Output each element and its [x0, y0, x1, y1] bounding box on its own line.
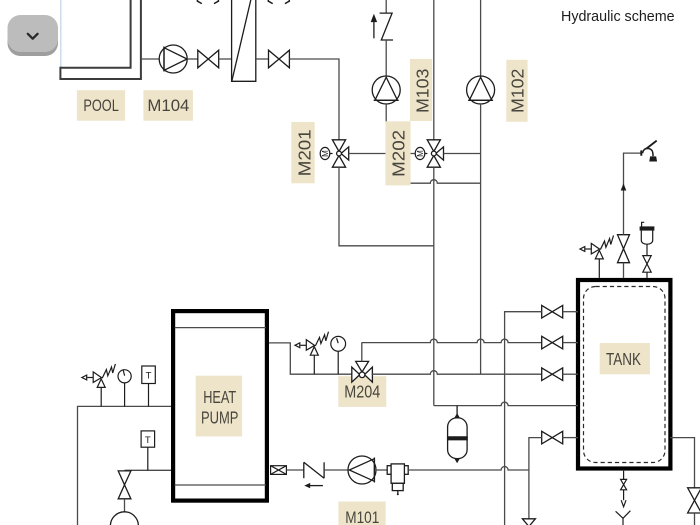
svg-text:T: T	[146, 371, 152, 382]
wire M202 to M102 pipe	[444, 153, 481, 155]
wire valve4 to tank	[563, 437, 578, 439]
flow arrow left	[304, 483, 323, 488]
valve above tank	[618, 235, 630, 263]
wire pump M101 to filter	[376, 469, 387, 471]
wire valve to tank top	[623, 263, 625, 278]
svg-text:M101: M101	[345, 508, 379, 525]
valve (right of heat exchanger)	[269, 50, 290, 68]
wire valve to bottom pump	[124, 499, 126, 512]
wire pool to pump M104	[141, 58, 159, 60]
wire pump M102 down	[480, 104, 482, 374]
air vent	[640, 222, 654, 255]
expansion vessel	[448, 406, 468, 462]
3-way valve M201	[332, 140, 348, 167]
heat pump inner line bottom	[175, 484, 266, 486]
svg-text:TANK: TANK	[606, 350, 641, 369]
wire valve3 to tank	[563, 373, 578, 375]
wire break symbol to pump M103	[385, 40, 387, 76]
wire below right drain valve	[694, 513, 696, 525]
label M202	[385, 121, 410, 185]
label M102	[506, 60, 527, 122]
heat pump body	[173, 311, 267, 501]
svg-text:Hydraulic scheme: Hydraulic scheme	[561, 9, 675, 25]
gauge (M204 line)	[331, 336, 346, 374]
heat pump inner line top	[175, 327, 266, 329]
label HEAT PUMP	[196, 376, 242, 437]
wire valve up to faucet with arrow	[624, 153, 642, 235]
valve (bottom left)	[118, 471, 131, 499]
svg-text:M102: M102	[507, 69, 527, 114]
pool	[60, 0, 140, 79]
svg-text:M104: M104	[147, 96, 189, 115]
faucet	[641, 141, 656, 162]
wire heat pump right top to M204 left	[269, 343, 352, 374]
wire valve to heat exchanger	[219, 58, 232, 60]
valve tip pair (top edge, left)	[197, 0, 218, 4]
wire valve1 to tank	[563, 311, 578, 313]
wire pump M103 down to cross line	[385, 104, 387, 183]
wire valve to M201 riser	[289, 59, 339, 140]
heat exchanger	[232, 0, 256, 81]
label M101	[338, 502, 385, 525]
tank inner dashed	[584, 287, 666, 463]
pump (bottom left, cut)	[110, 512, 138, 525]
gauge (heat pump left)	[118, 370, 131, 407]
label M204	[338, 376, 386, 407]
pump M103	[372, 76, 400, 104]
wire M103-M102 link with hop	[386, 180, 480, 184]
relief valve (heat pump left)	[82, 364, 116, 407]
wire M201 bottom	[339, 167, 434, 246]
3-way valve M204	[352, 361, 373, 382]
svg-text:M201: M201	[294, 129, 314, 176]
wire valve1 left + riser x=504.6	[505, 312, 542, 525]
label TANK	[600, 343, 650, 374]
tank valve 2	[542, 336, 563, 349]
tank bottom drain	[616, 471, 631, 525]
wire riser above break symbol	[385, 0, 387, 13]
svg-text:M: M	[321, 150, 330, 157]
svg-text:PUMP: PUMP	[201, 408, 239, 428]
svg-text:M: M	[416, 150, 425, 157]
check valve	[304, 462, 324, 478]
drain triangle bottom of x=528.9	[522, 519, 535, 525]
svg-text:M204: M204	[344, 382, 380, 402]
T sensor (bottom)	[141, 431, 155, 470]
wire filter to x=528.9 with hop	[408, 467, 529, 470]
wire pump to valve	[187, 58, 198, 60]
pump M102	[467, 76, 495, 104]
filter / dirt separator	[387, 464, 408, 495]
valve tip pair (top edge, right)	[268, 0, 289, 4]
flow arrow up	[621, 183, 627, 190]
pump M104	[159, 45, 187, 73]
wire check valve to pump M101	[324, 469, 348, 471]
tank valve 1	[542, 305, 563, 318]
svg-text:POOL: POOL	[83, 96, 119, 115]
M202 riser from top	[433, 0, 435, 140]
break/vent symbol	[372, 13, 393, 40]
motor M of M202	[415, 147, 427, 159]
relief valve (M204 line)	[295, 332, 329, 375]
wire M204 top to tank valve2 (with hops)	[362, 339, 542, 343]
wire x=433.8 to tank (y=405.6) with hop	[434, 402, 578, 406]
T sensor (heat pump left)	[142, 366, 156, 406]
M202 riser lower part	[433, 167, 435, 405]
pump M101	[348, 456, 376, 484]
pool water edge (light blue)	[60, 0, 62, 68]
wire riser above pump M102	[480, 0, 482, 76]
wire X box to check valve	[286, 469, 303, 471]
valve (pool line, left of heat exchanger)	[198, 50, 219, 68]
wire tank right to drain valve	[670, 438, 694, 488]
flow switch (X box)	[271, 466, 287, 475]
wire M204 right to tank valve3 (with hop)	[372, 371, 542, 375]
valve (tank right drain)	[688, 488, 700, 513]
tank body	[578, 280, 670, 469]
wire valve2 to tank	[563, 342, 578, 344]
collapse button	[8, 15, 59, 56]
wire M204 top riser	[361, 343, 363, 362]
tank valve 4	[542, 431, 563, 444]
svg-text:M103: M103	[412, 68, 432, 113]
motor M of M201	[320, 147, 332, 159]
relief valve (tank top)	[580, 235, 614, 278]
svg-text:T: T	[145, 435, 151, 446]
wire heat pump bottom left	[125, 469, 172, 471]
label M201	[291, 122, 314, 183]
svg-text:HEAT: HEAT	[203, 387, 236, 407]
label POOL	[77, 90, 125, 121]
wire M201 to M202 motor	[349, 153, 415, 155]
wire valve4 left + riser x=528.9 down	[529, 438, 542, 519]
3-way valve M202	[427, 140, 443, 167]
tank valve 3	[542, 368, 563, 381]
svg-text:M202: M202	[389, 130, 409, 177]
small valve below air vent	[643, 256, 651, 278]
label M104	[143, 90, 193, 121]
wire heat pump left	[78, 406, 172, 525]
wire heat exchanger to valve	[256, 58, 269, 60]
label M103	[410, 59, 432, 121]
